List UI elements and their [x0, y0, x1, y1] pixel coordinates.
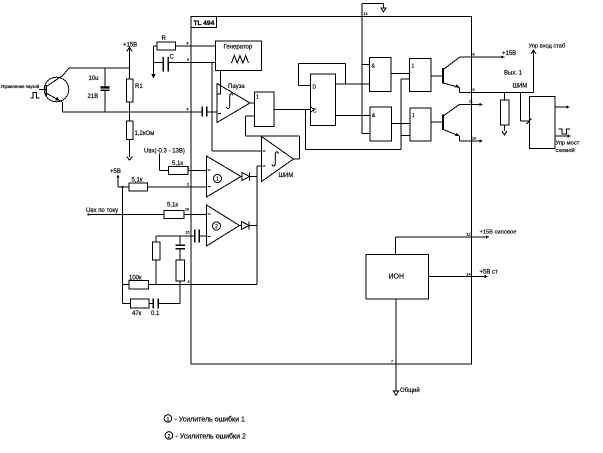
svg-text:6: 6 [187, 42, 189, 46]
svg-text:Упр мост: Упр мост [556, 141, 580, 147]
svg-text:2: 2 [215, 224, 218, 230]
svg-text:10: 10 [472, 137, 476, 141]
svg-text:7: 7 [391, 360, 393, 364]
svg-text:C: C [313, 109, 317, 115]
svg-text:5,1к: 5,1к [172, 161, 183, 167]
svg-text:11: 11 [469, 100, 473, 104]
svg-text:16: 16 [185, 208, 189, 212]
svg-text:14: 14 [467, 273, 471, 277]
svg-text:13: 13 [364, 12, 368, 16]
svg-text:0.1: 0.1 [151, 311, 160, 317]
svg-text:+5В ст: +5В ст [480, 270, 499, 276]
svg-text:1: 1 [216, 177, 219, 183]
svg-text:5,1к: 5,1к [167, 203, 178, 209]
svg-text:C: C [170, 55, 175, 61]
svg-text:- Усилитель ошибки 2: - Усилитель ошибки 2 [176, 433, 246, 441]
svg-text:Генератор: Генератор [224, 45, 253, 51]
svg-text:- Усилитель ошибки 1: - Усилитель ошибки 1 [175, 416, 245, 424]
svg-text:Общий: Общий [400, 387, 420, 394]
svg-text:1: 1 [256, 95, 259, 101]
svg-text:Вых. 1: Вых. 1 [504, 71, 523, 77]
svg-text:D: D [313, 85, 317, 91]
svg-text:2: 2 [187, 183, 189, 187]
svg-text:+15В силовое: +15В силовое [480, 230, 517, 236]
svg-text:R1: R1 [135, 84, 143, 90]
svg-text:+5В: +5В [110, 169, 121, 175]
svg-text:Uвх по току: Uвх по току [86, 208, 118, 214]
svg-text:8: 8 [473, 53, 475, 57]
svg-text:47к: 47к [132, 311, 142, 317]
svg-text:ШИМ: ШИМ [513, 84, 528, 90]
svg-text:1,2кОм: 1,2кОм [135, 131, 155, 137]
svg-text:5,1к: 5,1к [132, 178, 143, 184]
svg-text:+15В: +15В [502, 51, 516, 57]
svg-text:Пауза: Пауза [228, 84, 245, 90]
svg-text:TL 494: TL 494 [194, 20, 215, 27]
svg-text:1: 1 [412, 64, 415, 70]
svg-text:ШИМ: ШИМ [279, 173, 294, 179]
svg-text:21В: 21В [88, 94, 99, 100]
svg-text:2: 2 [168, 434, 171, 440]
svg-text:9: 9 [473, 88, 475, 92]
svg-text:Управление паузой: Управление паузой [1, 84, 40, 89]
svg-text:3: 3 [188, 280, 190, 284]
svg-text:12: 12 [467, 233, 471, 237]
svg-text:Упр вход стаб: Упр вход стаб [529, 44, 566, 50]
svg-text:R: R [162, 36, 167, 42]
svg-text:ИОН: ИОН [389, 274, 405, 281]
svg-text:1: 1 [167, 417, 170, 423]
svg-text:1: 1 [188, 166, 190, 170]
svg-text:Uвх(-0.3 - 13В): Uвх(-0.3 - 13В) [144, 149, 185, 155]
svg-text:10u: 10u [89, 76, 99, 82]
svg-text:100к: 100к [129, 276, 142, 282]
svg-text:1: 1 [412, 113, 415, 119]
svg-text:+15В: +15В [123, 43, 137, 49]
svg-text:15: 15 [186, 231, 190, 235]
svg-text:5: 5 [187, 58, 189, 62]
svg-text:схемой: схемой [556, 147, 575, 154]
svg-text:4: 4 [187, 108, 189, 112]
